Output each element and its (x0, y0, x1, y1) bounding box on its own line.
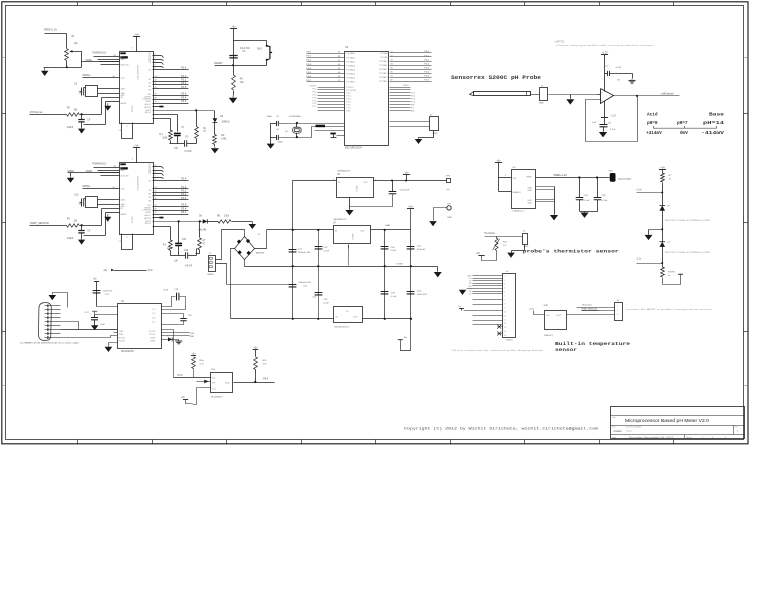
svg-text:16: 16 (155, 209, 157, 211)
svg-text:1000uF+16V: 1000uF+16V (298, 252, 311, 254)
power +VA U1 (133, 36, 140, 38)
svg-text:GND: GND (539, 102, 544, 104)
svg-text:P2.7/A15: P2.7/A15 (379, 80, 388, 83)
U1 analog input pins (102, 97, 120, 99)
svg-text:P0.3: P0.3 (307, 64, 312, 66)
svg-text:6: 6 (504, 296, 505, 298)
svg-text:T2OUT: T2OUT (149, 334, 156, 336)
svg-text:4.7uF: 4.7uF (610, 129, 616, 131)
earth ground C2 (631, 79, 633, 81)
capacitor C15 (175, 243, 182, 245)
capacitor C30 0.1uF (381, 247, 389, 249)
svg-text:10uF+16V: 10uF+16V (417, 294, 428, 296)
svg-text:-1uF: -1uF (592, 122, 597, 124)
svg-text:CONNECTOR DB9/female thru-hole: CONNECTOR DB9/female thru-hole cable (20, 341, 80, 344)
svg-text:T1IN: T1IN (119, 331, 124, 333)
svg-text:<Doc>: <Doc> (626, 430, 633, 433)
svg-text:4.7uF: 4.7uF (616, 67, 622, 69)
U1 right pin P1.4 stub (153, 69, 189, 71)
capacitor C40 0.1uF (381, 292, 389, 294)
svg-text:Sheet: Sheet (686, 436, 691, 439)
svg-text:P2.1/A9: P2.1/A9 (380, 56, 388, 59)
wire U6 IN (293, 180, 337, 182)
MAX232 V- loop cap C29 (162, 314, 184, 319)
ground arrow reset (232, 96, 234, 98)
svg-text:PSEN: PSEN (403, 85, 409, 87)
svg-text:P0.6/AD6: P0.6/AD6 (347, 77, 356, 80)
svg-text:CAP+: CAP+ (121, 87, 127, 90)
svg-text:24C64B/SO: 24C64B/SO (211, 397, 223, 399)
svg-text:P0.2/AD2: P0.2/AD2 (347, 60, 356, 63)
svg-text:C2-: C2- (152, 322, 156, 324)
svg-text:pH=0: pH=0 (647, 121, 658, 126)
svg-text:P0.5/AD5: P0.5/AD5 (347, 73, 356, 76)
U1 right pins P1 group (153, 77, 189, 79)
svg-text:28: 28 (391, 80, 393, 82)
svg-text:10uF+4V: 10uF+4V (417, 249, 426, 251)
svg-text:P0.7: P0.7 (307, 80, 312, 82)
svg-text:sensor: sensor (555, 348, 578, 353)
svg-text:probe's thermistor sensor: probe's thermistor sensor (523, 250, 620, 255)
svg-text:+1.2V: +1.2V (601, 51, 608, 54)
svg-text:C20: C20 (184, 250, 189, 252)
svg-text:B1: B1 (149, 70, 151, 72)
connector J11 pin2 wire (216, 264, 227, 285)
resistor R6 100k (214, 123, 216, 135)
svg-text:P0.0/AD0: P0.0/AD0 (347, 52, 356, 55)
svg-text:XIN: XIN (119, 130, 123, 132)
op-amp-mcu U2 box (120, 163, 154, 235)
MAX232 data wires right (162, 332, 190, 334)
svg-text:15: 15 (504, 331, 506, 333)
opamp output wire pHChannel (614, 95, 680, 97)
ground crystal (270, 143, 272, 144)
crystal Q1 symbol (293, 127, 301, 133)
ground arrow caps U8 (584, 211, 586, 212)
power +VA zener (659, 169, 666, 171)
svg-text:27: 27 (391, 76, 393, 78)
svg-text:OUT: OUT (353, 317, 358, 319)
svg-text:P2.6: P2.6 (425, 76, 430, 78)
svg-text:Thermistor: Thermistor (484, 232, 495, 235)
capacitor C8 4.7uF (604, 118, 606, 125)
capacitor C4 input U1 (81, 115, 83, 120)
bridge right wire to U7 (255, 230, 267, 249)
svg-text:10uF 16V: 10uF 16V (103, 291, 113, 293)
svg-text:3: 3 (617, 314, 618, 316)
resistor R9 4.7k pullup (191, 355, 196, 357)
svg-text:10: 10 (155, 87, 157, 89)
svg-text:37: 37 (338, 60, 340, 62)
DB9 to MAX232 wires (61, 329, 118, 331)
svg-text:SW1: SW1 (257, 49, 263, 51)
svg-text:RESET: RESET (215, 62, 224, 65)
svg-text:VREF: VREF (68, 170, 75, 173)
resistor R1b 100k (169, 130, 173, 140)
svg-text:11: 11 (504, 315, 506, 317)
svg-text:Date:: Date: (612, 436, 617, 439)
svg-text:+VA: +VA (408, 205, 413, 208)
svg-text:B2: B2 (149, 79, 151, 81)
ground arrow MAX232 GND pin (109, 343, 118, 347)
svg-text:T1OUT: T1OUT (149, 331, 156, 333)
svg-text:T2IN: T2IN (119, 334, 124, 336)
ground arrow probe shield (569, 98, 571, 100)
resistor R14 1k (661, 267, 665, 277)
svg-text:26: 26 (391, 72, 393, 74)
DB9 hook ground (53, 293, 68, 308)
ground arrow input cap U1 (81, 127, 83, 128)
ground arrow C8 (602, 131, 604, 133)
connector J5 thermistor (523, 234, 528, 245)
svg-text:P0.1/AD1: P0.1/AD1 (347, 56, 356, 59)
rail to U9 (231, 318, 334, 320)
connector J11 power input (209, 256, 216, 272)
svg-text:+VA: +VA (660, 166, 665, 169)
svg-text:B4: B4 (149, 86, 151, 88)
svg-text:10uF: 10uF (100, 324, 105, 326)
svg-text:P2.4/A12: P2.4/A12 (379, 68, 388, 71)
arrow to rail (251, 221, 253, 224)
crystal Q1 circuit (273, 123, 277, 125)
wire to MAX232 VCC (97, 306, 118, 308)
svg-text:Base: Base (709, 112, 725, 117)
wire VREF riser (81, 62, 83, 68)
U1 output network: wire AOUT long (153, 110, 215, 112)
diode D6 (203, 219, 208, 223)
switch SW1 (266, 41, 268, 46)
U1 right short stub (153, 106, 164, 108)
svg-text:P2.3/A11: P2.3/A11 (379, 64, 388, 67)
U1 bottom XIN loop (122, 123, 133, 139)
svg-text:Title: Title (612, 416, 616, 419)
svg-text:1%: 1% (503, 245, 506, 247)
wire U1 to R1b (153, 118, 171, 120)
svg-text:CON16: CON16 (505, 339, 513, 341)
DB9 pin wires (45, 305, 61, 307)
wire LM35 out (567, 314, 615, 316)
svg-text:GND: GND (528, 203, 533, 205)
svg-text:pH=7: pH=7 (677, 121, 688, 126)
svg-text:Sensorrex S200C pH Probe: Sensorrex S200C pH Probe (451, 75, 541, 81)
svg-text:4: 4 (504, 288, 505, 290)
svg-text:C1-: C1- (152, 313, 156, 315)
svg-text:B4: B4 (149, 197, 151, 199)
svg-text:7: 7 (504, 300, 505, 302)
svg-text:R1IN: R1IN (151, 338, 156, 340)
svg-text:pH=14: pH=14 (703, 121, 725, 126)
svg-text:1000uF+16V: 1000uF+16V (299, 282, 312, 284)
MAX232 left stub pin 12 (114, 332, 118, 334)
U10 VCC wire hook (193, 388, 211, 405)
svg-text:11: 11 (155, 194, 157, 196)
svg-text:CLK: CLK (121, 78, 126, 80)
regulator U9 78L05 (334, 307, 363, 323)
bridge rectifier V1 (235, 237, 255, 260)
svg-text:TEST POINT: TEST POINT (618, 179, 632, 181)
svg-text:1uF: 1uF (79, 92, 84, 95)
svg-text:XIN: XIN (119, 241, 123, 243)
test point TP5 (447, 206, 451, 210)
svg-text:AGND: AGND (121, 102, 127, 105)
svg-text:BFCoT: BFCoT (145, 223, 152, 225)
power +6v U8 (495, 162, 502, 164)
svg-text:Microprocessor Based pH Meter: Microprocessor Based pH Meter V2.0 (625, 418, 710, 423)
svg-text:P1.4: P1.4 (181, 67, 187, 70)
resistor R8 100k (208, 221, 219, 223)
svg-text:a basic unity gain buffer with: a basic unity gain buffer with current p… (556, 44, 654, 47)
svg-text:P1.1: P1.1 (181, 193, 187, 196)
svg-text:8: 8 (504, 303, 505, 305)
svg-text:BFCoT: BFCoT (145, 112, 152, 114)
svg-text:+1.2v: +1.2v (636, 189, 643, 191)
svg-text:P2.3: P2.3 (425, 63, 430, 65)
svg-text:0.1uF: 0.1uF (323, 302, 329, 304)
svg-text:5: 5 (155, 65, 156, 67)
border zone ticks left/right (2, 113, 6, 115)
svg-text:38: 38 (338, 56, 340, 58)
svg-text:GND: GND (528, 190, 533, 192)
svg-text:VREF+1.2V: VREF+1.2V (554, 174, 568, 177)
capacitor C14 10uF (93, 291, 101, 293)
svg-text:CAP+: CAP+ (121, 198, 127, 201)
svg-text:P2.0: P2.0 (425, 51, 430, 53)
U7 OUT rail +VAN (371, 229, 411, 231)
svg-text:32: 32 (338, 80, 340, 82)
opamp power +1.2V (604, 55, 606, 92)
svg-text:10: 10 (504, 311, 506, 313)
svg-text:Size: Size (612, 427, 616, 429)
svg-text:D1: D1 (469, 294, 471, 296)
wire zener bottom hook (663, 275, 681, 285)
capacitor C24 (318, 267, 320, 319)
thermistor to +VA power (482, 251, 497, 261)
crystal-cap C13 U2 (86, 197, 98, 208)
svg-text:8: 8 (155, 165, 156, 167)
svg-text:C13: C13 (74, 194, 79, 197)
U3 left group2 pins (318, 87, 345, 89)
svg-text:P1.4: P1.4 (181, 178, 187, 181)
svg-text:BRIDGE: BRIDGE (256, 252, 265, 254)
capacitor C41 0.1uF (579, 178, 581, 198)
resistor R7 47 snubber (199, 222, 201, 238)
svg-text:SD16A: SD16A (131, 217, 134, 224)
svg-text:6: 6 (155, 172, 156, 174)
U1 right pins P2 group (153, 95, 189, 97)
microcontroller U3 (89S52) box (345, 52, 389, 146)
capacitor C4 input U2 (81, 226, 83, 231)
svg-text:Thermistor: Thermistor (582, 303, 593, 306)
svg-text:1uF: 1uF (174, 148, 179, 150)
zener mid branch to ground (649, 229, 663, 231)
svg-text:0.47uF: 0.47uF (185, 151, 193, 153)
svg-text:100k: 100k (224, 215, 230, 217)
svg-text:Document Number: Document Number (626, 426, 642, 429)
U2 right pin P1.4 stub (153, 180, 189, 182)
svg-text:R?/2W: R?/2W (668, 272, 676, 274)
svg-text:30pF: 30pF (278, 141, 284, 143)
svg-text:7: 7 (155, 58, 156, 60)
svg-text:LM78M05/TO: LM78M05/TO (337, 171, 351, 173)
svg-text:MAX232/SO: MAX232/SO (121, 350, 134, 353)
capacitor C18 10uF (392, 181, 394, 192)
MAX232 serial out to P3.3 (162, 330, 174, 378)
svg-text:ADCoT: ADCoT (145, 103, 152, 106)
svg-text:R1OUT: R1OUT (119, 338, 127, 340)
DGND rail (245, 266, 438, 268)
svg-text:-1.2V: -1.2V (611, 116, 617, 118)
svg-text:2: 2 (127, 126, 128, 128)
svg-text:GND: GND (544, 305, 549, 307)
svg-text:RXD: RXD (190, 336, 195, 338)
svg-text:24: 24 (391, 63, 393, 65)
svg-text:UDWire: UDWire (310, 86, 318, 88)
bridge bottom wire to DGND (244, 260, 246, 267)
svg-text:AUTSQ: AUTSQ (144, 106, 151, 109)
capacitor C42 4.7uF (597, 178, 599, 198)
svg-text:AUTSQ: AUTSQ (144, 217, 151, 220)
svg-text:+VA: +VA (134, 33, 139, 36)
svg-text:TEMP_SENSOR: TEMP_SENSOR (30, 222, 49, 225)
svg-text:ALE: ALE (411, 109, 415, 112)
svg-text:1N4735-1.2V5B 6CL30/M6-1.2VSD: 1N4735-1.2V5B 6CL30/M6-1.2VSD (665, 252, 712, 254)
svg-text:16: 16 (504, 335, 506, 337)
svg-text:B3: B3 (149, 194, 151, 196)
svg-text:12: 12 (155, 191, 157, 193)
capacitor C17 1000uF (289, 250, 297, 252)
svg-text:2: 2 (127, 237, 128, 239)
svg-text:OUT: OUT (363, 182, 368, 184)
J10 lower bus wires (473, 299, 503, 301)
svg-text:P2.4: P2.4 (425, 67, 430, 69)
svg-text:+VA: +VA (476, 252, 481, 255)
svg-text:89C51RD2/SOP: 89C51RD2/SOP (345, 148, 362, 150)
svg-text:VCC: VCC (147, 269, 152, 272)
svg-text:3: 3 (504, 284, 505, 286)
capacitor C7 (174, 133, 181, 135)
U2 right pin stubs P1 hooks (153, 166, 162, 168)
svg-text:TEMP SENSOR: TEMP SENSOR (581, 308, 597, 310)
U7 IN rail (267, 229, 334, 231)
pH probe body (474, 92, 531, 96)
svg-text:P0.7/AD7: P0.7/AD7 (347, 81, 356, 84)
svg-text:P2.2: P2.2 (425, 59, 430, 61)
svg-text:33: 33 (338, 76, 340, 78)
title block (611, 407, 745, 439)
earth ground R2IN (178, 339, 180, 341)
connector J10 display 16pin (503, 274, 516, 338)
resistor Rx 47 (196, 111, 198, 127)
svg-text:+Vin: +Vin (546, 315, 550, 317)
svg-text:P2.1: P2.1 (425, 55, 430, 57)
connector P1 DB9 female (38, 303, 51, 341)
svg-text:P0.2: P0.2 (307, 60, 312, 62)
svg-text:P0.4/AD4: P0.4/AD4 (347, 68, 356, 71)
border zone ticks top/bottom (77, 2, 79, 6)
svg-text:P0.1: P0.1 (307, 56, 312, 58)
ground arrow U8 (553, 214, 555, 216)
svg-text:P2.5/A13: P2.5/A13 (379, 72, 388, 75)
svg-text:B5: B5 (149, 200, 151, 202)
svg-text:P1.0: P1.0 (181, 86, 187, 89)
resistor R13 1k (661, 173, 665, 182)
svg-text:0.47uF: 0.47uF (185, 266, 193, 268)
wire SDA P3.4 (234, 382, 275, 384)
svg-text:P1.1/T2EX: P1.1/T2EX (347, 90, 357, 92)
svg-text:+5v/b: +5v/b (529, 309, 535, 311)
svg-text:22: 22 (391, 55, 393, 57)
svg-text:2: 2 (505, 175, 506, 177)
svg-text:LM35/TO: LM35/TO (544, 335, 553, 337)
U2 RC network wires (178, 220, 180, 222)
svg-text:P1.0: P1.0 (181, 197, 187, 200)
svg-text:5: 5 (155, 176, 156, 178)
svg-text:B2: B2 (149, 190, 151, 192)
ground arrow U1 AVSS (107, 103, 109, 106)
connector J4 probe (540, 88, 548, 101)
sheet border frame (2, 2, 748, 444)
svg-text:12: 12 (504, 319, 506, 321)
svg-text:P2.7: P2.7 (425, 80, 430, 82)
svg-text:0.1uF: 0.1uF (324, 250, 330, 252)
svg-text:10: 10 (155, 198, 157, 200)
svg-text:6AR1/8: 6AR1/8 (222, 121, 230, 124)
svg-text:BUSY: BUSY (146, 101, 152, 103)
svg-text:ENABLE: ENABLE (513, 191, 522, 194)
opamp negative supply -1.2V (604, 101, 606, 118)
svg-text:5: 5 (155, 68, 156, 70)
power +6v tap (403, 174, 410, 176)
capacitor C4 reset 10uF (229, 56, 237, 58)
crystal-cap C3 U1 (86, 86, 98, 97)
wire +in (598, 94, 601, 96)
svg-text:Custom: Custom (614, 430, 622, 433)
U3 right P2 bus pins (390, 52, 432, 54)
wire U6 OUT +6v rail (374, 180, 447, 182)
svg-text:3: 3 (601, 92, 602, 94)
svg-text:12: 12 (155, 80, 157, 82)
svg-text:1: 1 (504, 276, 505, 278)
svg-text:9: 9 (504, 307, 505, 309)
U2 analog input pins (102, 208, 120, 210)
svg-text:VREF: VREF (526, 177, 532, 179)
svg-text:35: 35 (338, 68, 340, 70)
resistor R10 4.7k pullup SDA (253, 349, 259, 351)
svg-text:CLK: CLK (121, 189, 126, 191)
svg-text:100k: 100k (167, 248, 173, 250)
svg-text:15: 15 (155, 212, 157, 214)
svg-text:Copyright (C) 2012 by Wichit S: Copyright (C) 2012 by Wichit Sirichote, … (404, 426, 598, 431)
resistor R5 input U2 (67, 224, 80, 227)
U3 EA/VPP pin (330, 133, 335, 135)
ground arrow VREF U2 (70, 177, 72, 178)
svg-text:P2.6/A14: P2.6/A14 (379, 76, 388, 79)
svg-text:TXD: TXD (190, 333, 195, 335)
svg-text:15: 15 (155, 101, 157, 103)
op-amp U5 (601, 89, 614, 104)
svg-text:78M05: 78M05 (355, 185, 357, 192)
svg-text:A-SCON: A-SCON (121, 63, 129, 66)
svg-text:100k: 100k (162, 138, 168, 140)
ground arrow pot (44, 68, 46, 71)
op-amp-mcu U1 box (120, 52, 154, 124)
svg-text:0.1uF: 0.1uF (584, 200, 590, 202)
test point TP6 (447, 179, 451, 183)
svg-text:P2.5: P2.5 (181, 93, 187, 96)
svg-text:VCC: VCC (212, 388, 217, 390)
U7 ground pin (348, 245, 350, 249)
svg-text:pHChannel: pHChannel (30, 111, 43, 114)
